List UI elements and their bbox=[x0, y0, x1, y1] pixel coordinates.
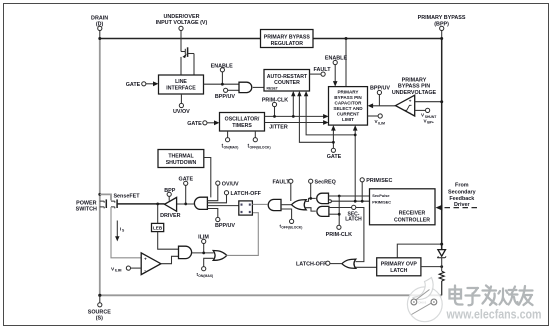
wire LEB top to gate line bbox=[157, 204, 159, 224]
svg-text:CAPACITOR: CAPACITOR bbox=[335, 101, 363, 106]
svg-text:PRIMARY: PRIMARY bbox=[337, 90, 358, 95]
svg-text:CURRENT: CURRENT bbox=[337, 112, 360, 117]
node junction prim/sec to capacitor box bbox=[354, 200, 357, 203]
svg-text:BPP/UV: BPP/UV bbox=[215, 94, 235, 100]
svg-text:DRIVER: DRIVER bbox=[160, 213, 180, 219]
svg-text:OFF(BLOCK): OFF(BLOCK) bbox=[281, 226, 302, 230]
watermark www.elecfans.com bbox=[446, 307, 542, 322]
wire secpulse branch to bottom AND and PRIM-CLK bbox=[329, 196, 339, 225]
wire latch to mid AND bbox=[252, 203, 267, 205]
wire ENABLE arrow into capacitor select box bbox=[333, 65, 338, 87]
svg-text:SOURCE: SOURCE bbox=[88, 309, 111, 315]
wire OR lower input from bottom AND bbox=[305, 208, 316, 211]
terminal ENABLE bbox=[211, 63, 234, 72]
terminal DRAIN (D) bbox=[91, 15, 108, 30]
gate drive AND (left pointing) bbox=[194, 197, 207, 209]
svg-text:LIMIT: LIMIT bbox=[342, 117, 354, 122]
wire OR upper input from NAND output / SecREQ bbox=[305, 198, 316, 201]
svg-text:ILIM: ILIM bbox=[378, 121, 385, 125]
wire ILIM stub bbox=[203, 244, 205, 253]
svg-text:OFF(BLOCK): OFF(BLOCK) bbox=[250, 146, 271, 150]
box primary bypass pin capacitor select and current limit bbox=[329, 87, 368, 126]
wire DRAIN terminal stub bbox=[99, 31, 101, 39]
svg-text:PRIMARY: PRIMARY bbox=[402, 77, 427, 83]
wire latch-off OR output bbox=[330, 263, 342, 265]
node junction prim-clk tap bbox=[273, 115, 276, 118]
resistor bleed bbox=[439, 271, 444, 295]
node junction secpulse branch bbox=[338, 195, 341, 198]
wire comparator plus input from BPP line bbox=[415, 101, 442, 103]
svg-text:SecPulse: SecPulse bbox=[372, 193, 390, 198]
wire V_ILIM right side bbox=[368, 115, 379, 117]
wire bleed resistor bottom overdraw bbox=[441, 281, 443, 295]
wire GATE to line interface bbox=[146, 81, 159, 86]
gate AND U-AR (enable/bppuv) bbox=[239, 82, 252, 92]
terminal tON(MAX) (or gate) bbox=[197, 267, 214, 278]
wire SecREQ stub bbox=[310, 183, 312, 198]
terminal BPP (driver supply) bbox=[164, 188, 175, 196]
latch S-R flip flop bbox=[239, 201, 253, 215]
svg-text:LEB: LEB bbox=[153, 226, 163, 231]
terminal V_ILIM (comparator) bbox=[111, 266, 131, 273]
svg-text:BPP: BPP bbox=[164, 188, 175, 194]
svg-text:ENABLE: ENABLE bbox=[211, 63, 234, 69]
svg-text:SELECT AND: SELECT AND bbox=[333, 106, 363, 111]
watermark chinese character 友 bbox=[519, 286, 533, 305]
terminal tOFF(BLOCK) bbox=[248, 138, 271, 150]
wire BPP/UV stub (comparator) bbox=[378, 95, 380, 106]
terminal PRIM-CLK (oscillator) bbox=[262, 98, 288, 107]
node junction LEB tap bbox=[156, 203, 159, 206]
terminal GATE (driver) bbox=[179, 177, 194, 186]
wire driver input from drive AND bbox=[177, 203, 195, 205]
gate mid AND (left pointing) bbox=[268, 199, 281, 210]
watermark chinese character 子 bbox=[466, 288, 480, 305]
terminal tON(MAX) bbox=[222, 138, 239, 150]
node junction SecREQ bbox=[309, 197, 312, 200]
wire gate drive line FET to driver bbox=[117, 203, 164, 205]
wire top bus DRAIN to BPP bbox=[100, 38, 442, 40]
wire auto-restart up line 3 from prim/sec net bbox=[304, 91, 355, 135]
box primary OVP latch bbox=[377, 258, 421, 276]
terminal LATCH-OFF (drive) bbox=[224, 191, 261, 197]
wire comparator output BPP/UV into box (arrow left) bbox=[368, 103, 396, 108]
svg-text:GATE: GATE bbox=[187, 121, 202, 127]
gate bottom AND (left pointing) bbox=[317, 206, 329, 216]
svg-text:UNDER/OVER: UNDER/OVER bbox=[164, 14, 200, 20]
wire OVP latch branch from BPP line bbox=[397, 244, 441, 258]
terminal BPP/UV (drive) bbox=[215, 217, 235, 228]
wire V terminal stub bbox=[180, 31, 182, 52]
svg-text:GATE: GATE bbox=[327, 154, 342, 160]
svg-text:REGULATOR: REGULATOR bbox=[271, 41, 304, 47]
box oscillator/timers bbox=[220, 113, 265, 132]
terminal ENABLE (capacitor select) bbox=[325, 56, 348, 65]
node junction line1 on prim-clk bbox=[292, 115, 295, 118]
terminal tOFF(BLOCK) (mid) bbox=[280, 219, 303, 229]
wire drain power line (gray) bbox=[99, 39, 101, 296]
node junction ILIM tap bbox=[202, 252, 205, 255]
terminal GATE (line interface) bbox=[126, 82, 146, 88]
terminal BPP/UV (reset and) bbox=[215, 88, 235, 100]
wire OVP latch to OR input bbox=[356, 266, 377, 268]
wire UV/OV stub bbox=[180, 94, 182, 103]
svg-text:PRIM-CLK: PRIM-CLK bbox=[262, 98, 288, 104]
wire oscillator output PRIM-CLK line bbox=[265, 114, 329, 119]
box LEB bbox=[152, 223, 164, 231]
svg-text:(D): (D) bbox=[96, 21, 104, 27]
svg-text:(BPP): (BPP) bbox=[434, 21, 449, 27]
op-amp primary bypass pin undervoltage comparator bbox=[392, 77, 437, 116]
svg-text:UNDERVOLTAGE: UNDERVOLTAGE bbox=[392, 90, 437, 96]
svg-text:RESET: RESET bbox=[267, 87, 279, 91]
node junction BPP/top bus bbox=[440, 37, 443, 40]
svg-text:PRIM-CLK: PRIM-CLK bbox=[326, 232, 352, 238]
svg-text:PRIM/SEC: PRIM/SEC bbox=[366, 178, 392, 184]
svg-text:THERMAL: THERMAL bbox=[168, 153, 194, 159]
gate ILIM AND bbox=[179, 246, 192, 258]
op-amp current limit comparator bbox=[141, 253, 161, 275]
wire Is sense current arrow bbox=[115, 221, 125, 242]
svg-text:BYPASS PIN: BYPASS PIN bbox=[398, 84, 430, 90]
svg-text:LINE: LINE bbox=[175, 79, 187, 85]
wire ENABLE stub bbox=[221, 72, 223, 84]
svg-text:TIMERS: TIMERS bbox=[232, 123, 252, 129]
terminal PRIMARY BYPASS (BPP) bbox=[418, 15, 466, 30]
svg-text:BPP/UV: BPP/UV bbox=[370, 86, 390, 92]
svg-text:DH0-S: DH0-S bbox=[419, 301, 427, 305]
terminal SecREQ bbox=[309, 179, 336, 185]
svg-text:OV/UV: OV/UV bbox=[222, 181, 239, 187]
terminal V_SHUNT / V_BP+ bbox=[421, 108, 437, 124]
svg-text:BYPASS PIN: BYPASS PIN bbox=[334, 95, 362, 100]
wire auto-restart up line 1 from prim-clk bbox=[291, 91, 295, 116]
wire line interface output to AND gate bbox=[204, 83, 240, 85]
terminal OV/UV bbox=[216, 181, 239, 187]
transistor high-voltage tap on V pin bbox=[181, 47, 194, 75]
svg-text:SHUNT: SHUNT bbox=[425, 115, 438, 119]
gate LATCH-OFF OR (left pointing) bbox=[342, 259, 356, 268]
wire sense source line to current comparator (gray) bbox=[111, 207, 141, 258]
terminal SOURCE (S) bbox=[88, 303, 111, 322]
box primary bypass regulator bbox=[261, 30, 314, 48]
wire oscillator output jitter line bbox=[265, 120, 329, 125]
svg-text:COUNTER: COUNTER bbox=[274, 80, 300, 86]
svg-text:BP+: BP+ bbox=[427, 121, 434, 125]
node junction enable tap bbox=[221, 83, 224, 86]
svg-text:SWITCH: SWITCH bbox=[76, 206, 97, 212]
wire AND output to auto-restart counter RESET bbox=[253, 86, 264, 88]
node junction gate net bbox=[332, 141, 335, 144]
amplifier DRIVER triangle bbox=[160, 197, 180, 219]
svg-text:SenseFET: SenseFET bbox=[113, 193, 140, 199]
wire auto-restart up line 2 from gate net bbox=[297, 91, 333, 142]
terminal UNDER/OVER INPUT VOLTAGE (V) bbox=[156, 14, 208, 31]
node junction comparator tap on BPP bbox=[440, 100, 443, 103]
terminal FAULT (mid) bbox=[273, 179, 293, 185]
wire source terminal stub bbox=[99, 295, 101, 302]
wire thermal shutdown to drive AND gate bbox=[204, 158, 211, 198]
terminal GATE (oscillator) bbox=[187, 121, 207, 127]
terminal PRIM/SEC bbox=[360, 178, 392, 184]
box line interface U-LI bbox=[159, 75, 204, 94]
wire dashed feedback from secondary bbox=[436, 182, 479, 210]
svg-text:CONTROLLER: CONTROLLER bbox=[394, 217, 430, 223]
svg-text:PRIMARY BYPASS: PRIMARY BYPASS bbox=[418, 15, 466, 21]
wire tON(MAX) to OR lower input bbox=[204, 258, 214, 266]
gate mid OR (left pointing) bbox=[292, 200, 307, 210]
wire V_ILIM input bbox=[131, 267, 142, 269]
wire OR output up to latch R bbox=[227, 213, 259, 256]
box receiver controller bbox=[370, 189, 436, 225]
box thermal shutdown bbox=[158, 150, 204, 168]
svg-text:From: From bbox=[455, 182, 469, 188]
power switch SenseFET Q1 bbox=[76, 193, 141, 212]
svg-text:+: + bbox=[144, 258, 147, 263]
svg-text:SecREQ: SecREQ bbox=[315, 179, 336, 185]
svg-text:LATCH: LATCH bbox=[345, 217, 362, 223]
node junction prim-clk branch bbox=[338, 213, 341, 216]
wire comparator output to ILIM AND bbox=[161, 256, 179, 263]
svg-text:INTERFACE: INTERFACE bbox=[166, 86, 196, 92]
node junction gate tap bbox=[184, 203, 187, 206]
wire drive AND input LATCH-OFF bbox=[207, 195, 226, 203]
diode zener OVP bbox=[437, 250, 446, 271]
wire BPP stub to driver bbox=[168, 196, 170, 200]
node junction regulator drop bbox=[345, 37, 348, 40]
svg-text:+: + bbox=[409, 99, 412, 104]
svg-text:PRIM/SEC: PRIM/SEC bbox=[372, 199, 391, 204]
wire drive AND input OV/UV bbox=[207, 185, 217, 201]
node junction source bbox=[98, 294, 101, 297]
svg-text:RECEIVER: RECEIVER bbox=[399, 211, 426, 217]
svg-text:ILIM: ILIM bbox=[115, 269, 122, 273]
wire primary bypass regulator drop to capacitor select box bbox=[345, 39, 347, 87]
node junction OVP branch bbox=[440, 243, 443, 246]
svg-text:FAULT: FAULT bbox=[273, 179, 291, 185]
svg-text:LATCH-OFF: LATCH-OFF bbox=[231, 191, 262, 197]
svg-text:FAULT: FAULT bbox=[314, 67, 332, 73]
wire PRIM/SEC pin stub bbox=[361, 182, 363, 201]
wire SecPulse line bbox=[329, 195, 370, 197]
node junction prim/sec bend bbox=[354, 134, 357, 137]
svg-text:INPUT VOLTAGE (V): INPUT VOLTAGE (V) bbox=[156, 20, 208, 26]
svg-text:LATCH: LATCH bbox=[390, 268, 407, 274]
wire source bus (gray) bbox=[100, 294, 442, 296]
label JITTER bbox=[269, 124, 288, 130]
wire tON(MAX) stub bbox=[227, 131, 229, 138]
terminal ILIM bbox=[198, 234, 209, 243]
svg-text:SHUTDOWN: SHUTDOWN bbox=[166, 160, 197, 166]
wire BPP/UV to AND gate bbox=[228, 89, 239, 91]
node junction zener line bbox=[440, 265, 443, 268]
wire FAULT from auto-restart counter bbox=[310, 73, 321, 75]
wire BPP vertical line right side bbox=[441, 39, 443, 250]
svg-text:ILIM: ILIM bbox=[198, 234, 209, 240]
terminal V_ILIM (capacitor select) bbox=[375, 114, 386, 126]
watermark chinese character 烧 bbox=[499, 287, 518, 305]
box auto-restart counter bbox=[264, 70, 310, 92]
svg-text:PRIMARY OVP: PRIMARY OVP bbox=[381, 262, 418, 268]
wire GATE arrow to oscillator bbox=[207, 120, 219, 125]
svg-text:OSCILLATOR/: OSCILLATOR/ bbox=[225, 117, 260, 123]
svg-text:Driver: Driver bbox=[454, 202, 470, 208]
svg-text:ENABLE: ENABLE bbox=[325, 56, 348, 62]
wire OVP latch output to zener line bbox=[421, 266, 442, 268]
wire tOFF(BLOCK) to mid AND bbox=[281, 209, 292, 219]
wire PRIM/SEC line bbox=[331, 200, 369, 202]
svg-text:UV/OV: UV/OV bbox=[173, 109, 190, 115]
wire LEB bottom to ILIM AND bbox=[158, 232, 179, 250]
wire mid AND input from OR bbox=[281, 204, 292, 206]
terminal GATE (capacitor select) bbox=[327, 148, 342, 160]
wire tOFF(BLOCK) stub bbox=[254, 131, 256, 138]
terminal SEC-LATCH bbox=[345, 205, 362, 222]
svg-text:AUTO-RESTART: AUTO-RESTART bbox=[267, 74, 308, 80]
watermark chinese character 电 bbox=[450, 286, 463, 305]
svg-text:ON(MAX): ON(MAX) bbox=[224, 146, 239, 150]
svg-text:JITTER: JITTER bbox=[269, 124, 288, 130]
watermark chinese character 发 bbox=[483, 286, 497, 306]
svg-text:GATE: GATE bbox=[126, 82, 141, 88]
terminal UV/OV bbox=[173, 103, 190, 115]
wire FAULT stub to OR bbox=[290, 183, 292, 201]
wire ILIM AND output to OR bbox=[192, 252, 214, 254]
svg-text:www.elecfans.com: www.elecfans.com bbox=[446, 307, 542, 322]
wire PRIM/SEC vertical up into capacitor select box bbox=[353, 125, 358, 201]
gate top NAND (left pointing with bubble) bbox=[317, 193, 332, 203]
svg-text:(S): (S) bbox=[96, 315, 103, 321]
wire comparator minus input to V_SHUNT bbox=[415, 109, 426, 111]
wire drive AND input from latch Q bbox=[207, 205, 238, 207]
terminal BPP/UV (comparator) bbox=[370, 86, 390, 95]
wire GATE arrow up into capacitor select box bbox=[331, 125, 336, 148]
wire SEC-LATCH line bbox=[329, 208, 364, 262]
node junction prim/sec pin bbox=[361, 200, 364, 203]
svg-text:BPP/UV: BPP/UV bbox=[215, 223, 235, 229]
svg-text:PRIMARY BYPASS: PRIMARY BYPASS bbox=[264, 35, 311, 41]
wire GATE tap stub (driver) bbox=[185, 185, 187, 204]
watermark logo circle bbox=[407, 278, 442, 322]
svg-text:GATE: GATE bbox=[179, 177, 194, 183]
wire drive AND input BPP/UV bbox=[207, 209, 217, 218]
terminal FAULT (auto-restart) bbox=[314, 67, 332, 76]
svg-text:LATCH-OFF: LATCH-OFF bbox=[296, 261, 327, 267]
wire BPP terminal stub bbox=[441, 31, 443, 39]
svg-text:Secondary: Secondary bbox=[448, 189, 476, 195]
svg-text:ON(MAX): ON(MAX) bbox=[198, 274, 213, 278]
wire PRIM-CLK stub bbox=[274, 107, 276, 117]
node junction drain/top bus bbox=[98, 37, 101, 40]
terminal LATCH-OFF (output) bbox=[296, 261, 330, 267]
gate OR current limit bbox=[213, 251, 227, 261]
terminal PRIM-CLK (bottom) bbox=[326, 225, 352, 238]
